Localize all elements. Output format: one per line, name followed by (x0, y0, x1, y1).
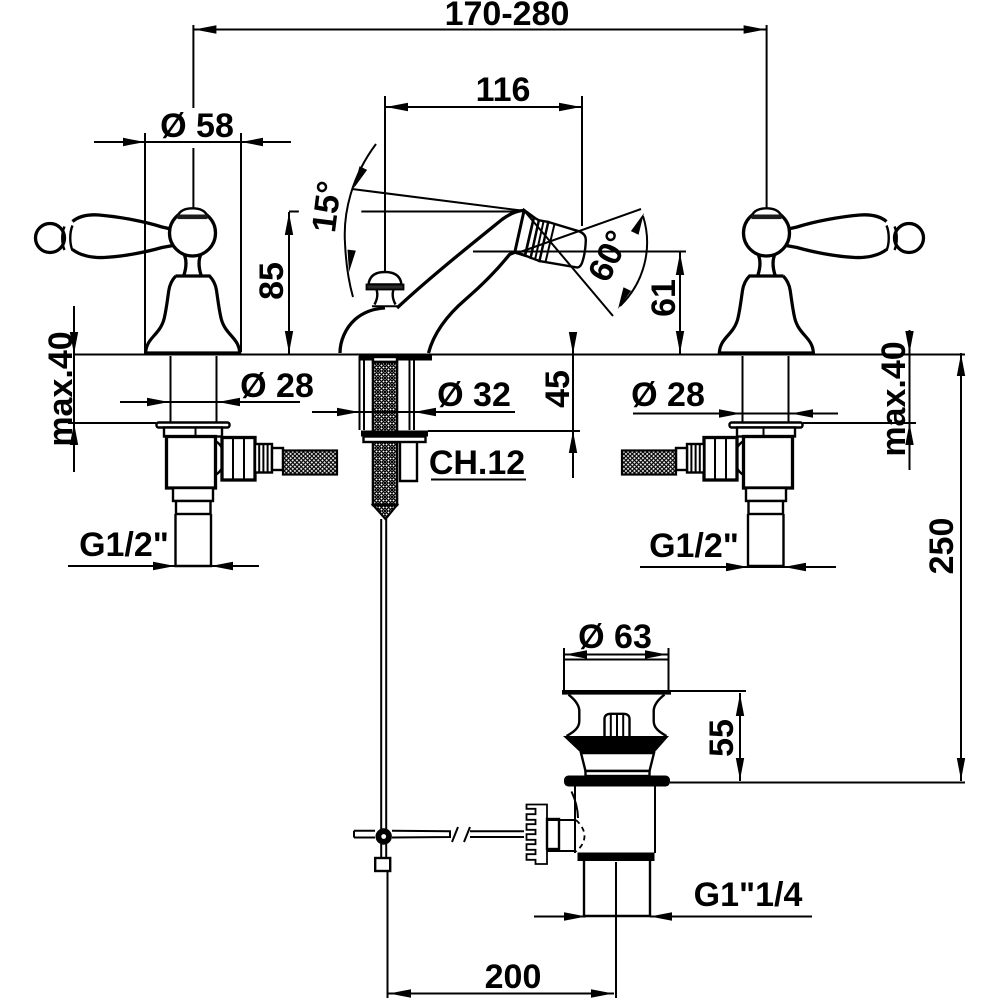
pop-up knob dome (369, 272, 402, 285)
dimension 55 drain height (671, 690, 746, 692)
centre shank outer tube (359, 356, 361, 430)
shank backnut flange (361, 431, 428, 437)
pivot ball (744, 210, 790, 256)
handle neck (758, 254, 775, 276)
drain clamp serrated strip (527, 805, 548, 865)
dimension diameter 32 centre shank (312, 411, 515, 413)
G1/2 tail pipe (748, 514, 784, 566)
dimension 116 spout projection (385, 106, 582, 108)
svg-text:250: 250 (923, 518, 961, 575)
compression hex nut (222, 438, 255, 481)
svg-text:45: 45 (539, 370, 577, 408)
dimension 170-280 top span (193, 29, 766, 31)
valve body (167, 437, 216, 489)
aerator ring 2 (525, 218, 539, 258)
svg-text:Ø 28: Ø 28 (240, 367, 314, 405)
left handle and valve assembly (36, 208, 338, 566)
valve lower steps (746, 488, 786, 501)
svg-text:G1/2": G1/2" (79, 526, 169, 564)
threaded shank rod (373, 357, 397, 362)
right handle and valve assembly (622, 208, 924, 566)
escutcheon bell (719, 276, 813, 353)
svg-text:116: 116 (476, 71, 531, 109)
pivot cap (178, 208, 207, 216)
dimension 61 aerator height (473, 251, 686, 253)
svg-text:G1"1/4: G1"1/4 (694, 876, 803, 914)
svg-text:170-280: 170-280 (445, 0, 570, 33)
svg-text:Ø 58: Ø 58 (160, 107, 234, 145)
valve body (744, 437, 793, 489)
dimension G1 1/4 drain thread (534, 916, 586, 918)
lever grip (786, 215, 887, 230)
mounting washer plate (730, 423, 803, 428)
dimension diameter 28 right valve stem (633, 413, 838, 415)
handle neck (184, 254, 201, 276)
15 degree swivel annotation (289, 211, 520, 213)
svg-text:85: 85 (253, 262, 291, 300)
rod lower end block (375, 858, 390, 871)
svg-text:Ø 32: Ø 32 (437, 376, 511, 414)
spout body left profile (340, 308, 385, 353)
spout top edge (397, 210, 524, 308)
braided flex hose (283, 451, 337, 475)
deck gasket under body (359, 356, 432, 361)
dimension diameter 58 handle base (94, 141, 291, 143)
basin surface reference line (670, 782, 965, 784)
rod break marks (452, 827, 470, 842)
drain seal cone (563, 736, 669, 753)
drain seat cup (581, 753, 654, 771)
pop-up pull rod (380, 519, 382, 829)
svg-text:max.40: max.40 (875, 341, 913, 456)
lever ball end (36, 224, 65, 253)
drain basin flange (564, 776, 670, 787)
valve lower steps (173, 488, 213, 501)
rod ball joint (376, 828, 392, 844)
dimension max.40 right deck thickness (909, 330, 911, 470)
drain tail pipe (584, 861, 650, 916)
svg-text:200: 200 (485, 958, 542, 996)
valve stem tube (788, 356, 790, 423)
pivot ball (170, 210, 216, 256)
drain neck (567, 695, 667, 736)
lever grip (73, 215, 174, 230)
hose ferrule (676, 448, 687, 470)
dimension 85 spout height (288, 212, 290, 354)
drain body (574, 787, 576, 854)
svg-text:61: 61 (645, 279, 683, 317)
outlet port bump (216, 441, 225, 475)
aerator collar ring (515, 210, 534, 255)
dimension max.40 left deck thickness (73, 306, 75, 472)
escutcheon bell (146, 276, 240, 353)
svg-text:55: 55 (703, 719, 741, 757)
drain lever block (547, 819, 559, 849)
CH.12 rod fitting tube (400, 442, 417, 481)
svg-text:15°: 15° (305, 179, 349, 235)
60 degree spray cone annotation (516, 209, 641, 254)
hose nut knurl (687, 444, 704, 473)
dimension G1/2 left inlet thread (68, 565, 259, 567)
svg-text:CH.12: CH.12 (429, 444, 525, 482)
spout under edge (429, 252, 515, 353)
svg-text:Ø 63: Ø 63 (578, 618, 652, 656)
horizontal linkage rod (354, 831, 375, 838)
hose ferrule (272, 448, 283, 470)
pop-up knob stem (375, 290, 396, 305)
drain side port (547, 819, 575, 821)
lever ball end (895, 224, 924, 253)
hose nut knurl (255, 444, 272, 473)
dimension G1/2 right inlet thread (640, 566, 836, 568)
dimension diameter 28 left valve stem (120, 401, 300, 403)
mounting washer plate (157, 423, 230, 428)
svg-text:Ø 28: Ø 28 (631, 376, 705, 414)
svg-text:G1/2": G1/2" (649, 527, 739, 565)
aerator ridged rings (531, 220, 549, 261)
valve stem tube (170, 356, 172, 423)
pivot cap (752, 208, 781, 216)
G1/2 tail pipe (176, 514, 212, 566)
outlet port bump (735, 441, 744, 475)
dimension diameter 63 drain flange (564, 654, 668, 656)
braided flex hose (622, 451, 676, 475)
aerator end cap (540, 222, 586, 268)
dimension 200 rod offset (388, 993, 614, 995)
dimension 45 under-deck depth (572, 335, 574, 478)
drain plug knob (605, 714, 630, 736)
drain lever hidden ball (576, 820, 585, 852)
compression hex nut (704, 438, 737, 481)
svg-text:max.40: max.40 (42, 331, 80, 446)
dimension 250 drain drop (960, 353, 962, 781)
drain top rim (564, 659, 669, 661)
mounting deck line (74, 354, 965, 356)
